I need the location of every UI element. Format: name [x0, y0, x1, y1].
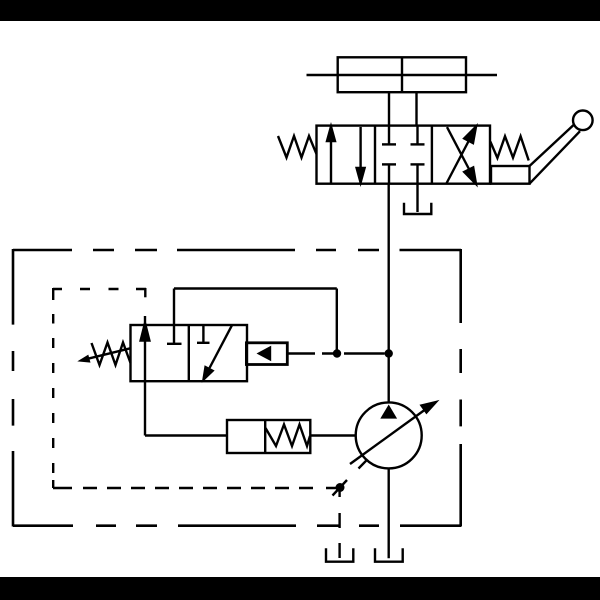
tank T2 drain	[326, 548, 353, 561]
compensator V2 adjustment arrow	[77, 348, 130, 362]
pump P1 circle	[356, 402, 422, 468]
tank T1 under valve	[404, 203, 431, 214]
node junction on line P	[385, 349, 393, 357]
compensator V2 diagonal arrow	[204, 325, 233, 379]
valve V1 center cell port T bottom-left	[382, 164, 396, 183]
valve V1 right cell crossed arrow down	[447, 127, 476, 184]
wire pilot line horizontal	[174, 287, 337, 289]
cylinder C1 rod	[307, 74, 498, 76]
lever knob	[573, 111, 593, 131]
valve V1 spring left	[278, 136, 317, 158]
cylinder C1 body	[338, 57, 466, 92]
cylinder C1 piston	[401, 57, 403, 92]
wire pilot line down to junction	[336, 289, 338, 354]
compensator V2 divider	[188, 325, 190, 381]
valve V1 divider right	[431, 126, 433, 184]
pump P1 variable displacement arrow	[350, 402, 436, 464]
check valve CV1 body	[246, 343, 287, 365]
letterbox bar top	[0, 0, 600, 21]
wire dashed control line to pump	[333, 459, 368, 495]
outer dashed enclosure bottom edge	[13, 524, 461, 527]
throttle B1 divider	[264, 420, 266, 453]
pump P1 outlet triangle	[380, 405, 397, 419]
wire dashed pilot check valve to junction	[287, 352, 384, 354]
wire compensator to throttle	[145, 434, 227, 436]
wire throttle to pump	[310, 434, 356, 436]
wire valve T port to tank	[416, 184, 418, 212]
valve V1 center cell port T bottom-right	[411, 164, 425, 183]
valve V1 center cell port T top-left	[382, 126, 396, 145]
letterbox bar bottom	[0, 577, 600, 600]
wire pump outlet to tank	[388, 468, 390, 558]
wire dashed drain line	[338, 489, 340, 558]
wire cylinder port B	[415, 92, 417, 125]
compensator port 1 T bar	[167, 343, 182, 345]
wire pilot line vertical from compensator port	[173, 289, 175, 344]
valve V1 divider left	[374, 126, 376, 184]
compensator V2 up arrow	[141, 316, 150, 436]
inner dashed enclosure left edge	[52, 288, 54, 488]
throttle B1 body	[227, 420, 310, 453]
valve V1 left cell up arrow	[327, 127, 335, 183]
wire line P valve to pump	[388, 184, 390, 403]
valve V1 left cell down arrow	[357, 127, 365, 183]
node junction pilot	[333, 349, 341, 357]
inner dashed enclosure top edge	[53, 288, 146, 290]
tank T3 main	[375, 548, 403, 561]
directional valve V1 body	[317, 126, 491, 184]
inner dashed enclosure top-right corner stub	[144, 288, 146, 297]
wire cylinder port A	[388, 92, 390, 125]
outer dashed enclosure left edge	[12, 249, 15, 527]
compensator V2 adjustable spring	[92, 343, 131, 366]
compensator V2 port 2 T	[197, 325, 210, 343]
check valve CV1 poppet triangle	[257, 346, 272, 362]
node control junction	[336, 483, 345, 492]
valve V1 spring right	[490, 136, 528, 160]
lever pivot box	[491, 166, 530, 184]
valve V1 center cell port T top-right	[411, 126, 425, 145]
outer dashed enclosure top edge	[13, 249, 461, 252]
inner dashed enclosure bottom edge	[53, 487, 336, 489]
outer dashed enclosure right edge	[459, 249, 462, 527]
valve V1 right cell crossed arrow up	[446, 127, 476, 184]
lever arm	[530, 125, 581, 184]
throttle B1 spring	[266, 425, 311, 447]
compensator valve V2 body	[131, 325, 248, 381]
